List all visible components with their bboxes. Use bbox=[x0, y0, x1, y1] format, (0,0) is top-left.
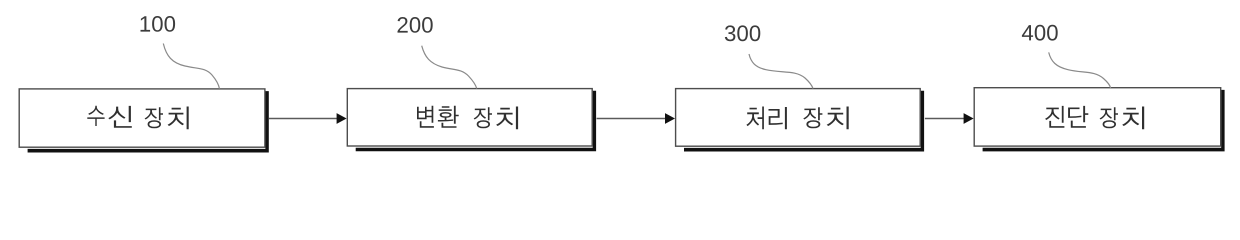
leader line squiggle to label 200 bbox=[422, 46, 477, 89]
leader line squiggle to label 300 bbox=[749, 54, 813, 89]
block U2 conversion unit 변환 장치 box bbox=[347, 89, 592, 146]
wire arrow A3 bbox=[925, 118, 965, 120]
reference numeral 200 bbox=[398, 17, 433, 33]
block U2 conversion unit 변환 장치 shadow bbox=[356, 91, 596, 152]
label text 진단 장치 bbox=[1045, 106, 1144, 129]
wire arrow A1 bbox=[269, 118, 338, 120]
reference numeral 400 bbox=[1022, 25, 1058, 41]
block U1 receiving unit 수신 장치 box bbox=[19, 89, 265, 147]
block U3 processing unit 처리 장치 shadow bbox=[684, 91, 924, 152]
label text 변환 장치 bbox=[417, 106, 518, 129]
wire arrow A2 bbox=[597, 118, 667, 120]
label text 처리 장치 bbox=[746, 107, 848, 130]
leader line squiggle to label 100 bbox=[163, 44, 219, 89]
reference numeral 300 bbox=[725, 25, 761, 41]
label text 수신 장치 bbox=[87, 106, 188, 130]
block U4 diagnosis unit 진단 장치 shadow bbox=[983, 90, 1225, 151]
block U4 diagnosis unit 진단 장치 box bbox=[974, 88, 1220, 146]
reference numeral 100 bbox=[141, 16, 176, 32]
leader line squiggle to label 400 bbox=[1049, 52, 1111, 88]
block U3 processing unit 처리 장치 box bbox=[676, 89, 921, 147]
block U1 receiving unit 수신 장치 shadow bbox=[28, 91, 269, 152]
